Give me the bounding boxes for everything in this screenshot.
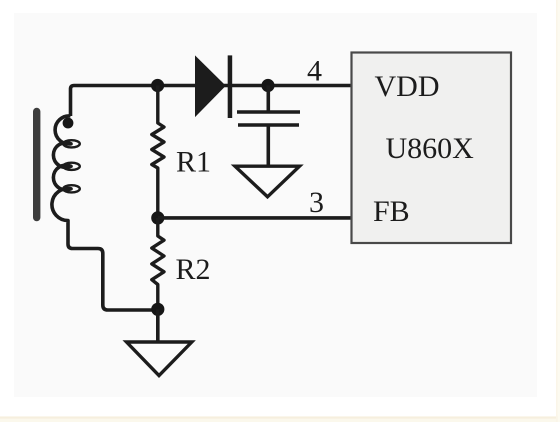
svg-text:FB: FB — [373, 195, 410, 228]
resistor R1 — [152, 86, 164, 219]
diode — [195, 55, 232, 118]
wire: R2 ground lead — [156, 309, 160, 342]
node: feedback divider junction — [151, 211, 164, 224]
svg-text:VDD: VDD — [375, 70, 440, 103]
IC U860X — [352, 53, 512, 244]
polarity dot — [63, 118, 74, 129]
ground (capacitor) — [235, 166, 300, 197]
winding crossover loop 3 — [63, 185, 80, 192]
capacitor ground lead — [266, 127, 270, 167]
winding crossover loop 2 — [63, 163, 80, 170]
svg-text:4: 4 — [307, 55, 322, 88]
svg-text:U860X: U860X — [386, 132, 475, 165]
transformer core bar — [33, 112, 40, 218]
svg-text:R1: R1 — [176, 146, 211, 179]
wire: FB to IC pin 3 — [158, 216, 352, 220]
capacitor top plate — [237, 110, 300, 113]
node: rectifier output junction — [151, 79, 164, 92]
svg-text:3: 3 — [309, 186, 324, 219]
capacitor bottom plate — [238, 123, 299, 126]
node: R2 bottom / winding return junction — [151, 303, 164, 316]
wire: winding top terminal up and right to VDD rail — [71, 86, 352, 117]
transformer winding — [52, 116, 158, 310]
resistor R2 — [152, 218, 164, 309]
node: capacitor junction — [261, 79, 274, 92]
svg-text:R2: R2 — [176, 253, 211, 286]
winding crossover loop 1 — [63, 140, 80, 147]
ground (R2) — [127, 342, 192, 376]
capacitor lead from rail — [266, 86, 270, 111]
